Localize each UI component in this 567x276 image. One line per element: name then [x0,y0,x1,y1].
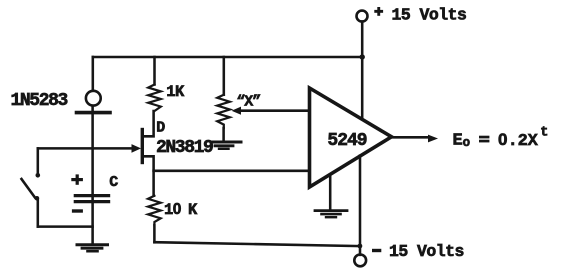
svg-text:o: o [463,136,471,150]
svg-text:0: 0 [173,201,182,218]
svg-text:“X”: “X” [236,94,260,111]
svg-text:E: E [453,131,463,150]
svg-text:5249: 5249 [327,131,366,151]
svg-text:1: 1 [164,201,173,219]
svg-text:1K: 1K [166,83,185,101]
svg-text:t: t [540,126,548,141]
svg-text:0: 0 [498,130,507,149]
svg-text:15 Volts: 15 Volts [392,5,467,24]
svg-text:2N3819: 2N3819 [156,138,213,158]
svg-text:15 Volts: 15 Volts [389,242,464,261]
svg-text:1N5283: 1N5283 [11,91,68,111]
svg-text:.2X: .2X [508,132,539,151]
svg-text:K: K [188,201,198,219]
svg-text:C: C [109,174,118,191]
svg-text:D: D [156,119,165,136]
